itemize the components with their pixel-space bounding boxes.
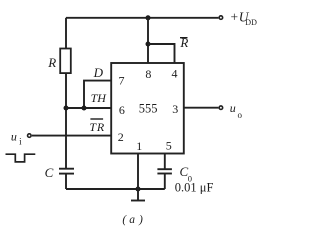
label TR-bar bbox=[89, 119, 105, 134]
caption (a) bbox=[122, 214, 143, 226]
wire capacitor C bottom to bottom rail bbox=[65, 174, 67, 189]
svg-text:(: ( bbox=[122, 214, 127, 226]
svg-text:4: 4 bbox=[172, 67, 178, 81]
wire reset branch to pin 4 bbox=[148, 44, 175, 63]
capacitor C bbox=[59, 169, 74, 174]
wire left vertical from top rail to resistor bbox=[65, 18, 67, 49]
label R-bar (reset) bbox=[179, 35, 188, 50]
wire pin 5 vertical to C0 bbox=[164, 154, 166, 170]
wire pin 1 vertical to rail and ground bbox=[137, 154, 139, 201]
svg-text:555: 555 bbox=[139, 102, 158, 116]
capacitor C0 bbox=[157, 169, 172, 173]
svg-text:R: R bbox=[179, 35, 188, 50]
wire bottom rail bbox=[66, 188, 165, 190]
svg-text:a: a bbox=[129, 214, 135, 226]
wire pin 7 discharge branch bbox=[84, 81, 111, 108]
svg-text:2: 2 bbox=[118, 130, 124, 144]
node junction dot pin8/UDD bbox=[146, 15, 151, 20]
svg-text:): ) bbox=[138, 214, 143, 226]
svg-text:3: 3 bbox=[172, 102, 178, 116]
svg-text:R: R bbox=[47, 55, 56, 70]
terminal +UDD bbox=[219, 16, 223, 20]
svg-text:7: 7 bbox=[119, 74, 125, 88]
svg-text:8: 8 bbox=[145, 67, 151, 81]
terminal u_i input bbox=[28, 134, 32, 138]
resistor R bbox=[60, 49, 71, 74]
node junction dot R-C / pin6 bbox=[64, 106, 69, 111]
terminal u_o output bbox=[219, 106, 223, 110]
wire left vertical from resistor to capacitor C bbox=[65, 73, 67, 169]
svg-text:6: 6 bbox=[119, 103, 125, 117]
svg-text:o: o bbox=[238, 110, 243, 120]
svg-text:C: C bbox=[45, 165, 54, 180]
wire pin 2 trigger from input bbox=[32, 135, 111, 137]
svg-text:TR: TR bbox=[89, 120, 105, 134]
svg-text:DD: DD bbox=[245, 18, 257, 27]
svg-text:i: i bbox=[19, 137, 22, 147]
svg-text:D: D bbox=[93, 65, 104, 80]
ground bbox=[131, 200, 145, 202]
wire C0 bottom to bottom rail bbox=[164, 174, 166, 190]
input pulse waveform bbox=[6, 154, 36, 162]
wire top rail from R top to +UDD terminal bbox=[66, 17, 218, 19]
wire pin 3 output bbox=[184, 107, 219, 109]
node junction dot pin1/ground bbox=[136, 187, 141, 192]
node junction dot reset branch bbox=[146, 42, 151, 47]
svg-text:TH: TH bbox=[91, 91, 108, 105]
wire pin 8 vertical to top rail bbox=[147, 18, 149, 63]
op-amp U1 555 timer box bbox=[111, 63, 184, 154]
svg-text:u: u bbox=[230, 101, 236, 115]
node junction dot D/TH bbox=[82, 106, 87, 111]
svg-text:u: u bbox=[11, 129, 17, 143]
svg-text:0.01 μF: 0.01 μF bbox=[175, 181, 214, 195]
wire pin 6 threshold bbox=[66, 107, 111, 109]
svg-text:1: 1 bbox=[136, 139, 142, 153]
svg-text:5: 5 bbox=[166, 139, 172, 153]
